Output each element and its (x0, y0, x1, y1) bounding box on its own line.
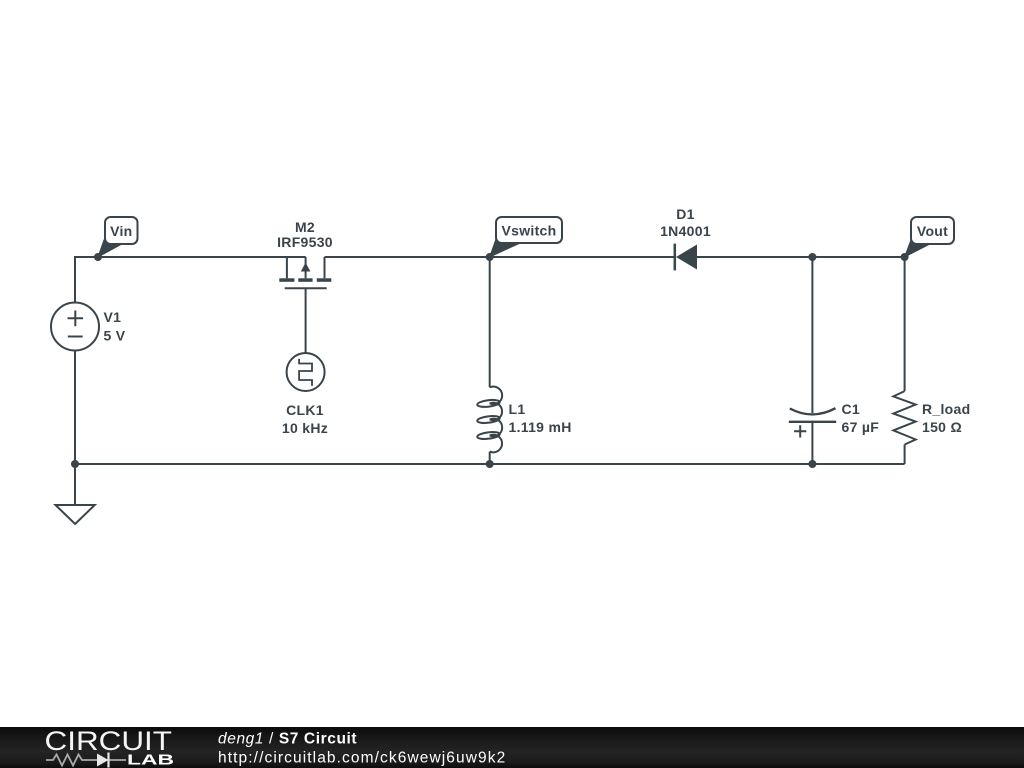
transistor M2 channel bars and body arrow (279, 263, 331, 282)
svg-text:deng1 / S7 Circuit: deng1 / S7 Circuit (218, 731, 357, 748)
capacitor C1 plates (789, 408, 836, 422)
svg-text:5 V: 5 V (104, 328, 126, 344)
resistor R_load (893, 391, 915, 444)
wire R_load bottom (904, 445, 906, 465)
svg-text:CLK1: CLK1 (286, 402, 324, 418)
CircuitLab logo (45, 726, 175, 768)
node Vin flag (98, 217, 138, 257)
wire top rail from M2 drain to D1 cathode (325, 256, 675, 258)
svg-text:1.119 mH: 1.119 mH (509, 419, 572, 435)
wire Vswitch node down to L1 top (489, 257, 491, 387)
wire V1 bottom down through ground node (74, 351, 76, 506)
junction L1 bottom (486, 460, 494, 468)
svg-text:L1: L1 (509, 401, 526, 417)
svg-text:Vout: Vout (917, 223, 948, 239)
svg-text:CIRCUIT: CIRCUIT (45, 726, 173, 756)
svg-text:D1: D1 (676, 206, 695, 222)
svg-text:Vswitch: Vswitch (501, 223, 556, 239)
svg-text:1N4001: 1N4001 (660, 223, 711, 239)
svg-text:V1: V1 (104, 309, 122, 325)
transistor M2 (PMOS) terminals and gate (285, 257, 327, 353)
svg-text:IRF9530: IRF9530 (277, 234, 333, 250)
svg-text:Vin: Vin (110, 223, 132, 239)
junction C1 bottom (808, 460, 816, 468)
svg-text:10 kHz: 10 kHz (282, 420, 328, 436)
svg-text:C1: C1 (842, 401, 861, 417)
wire C1 bottom (811, 422, 813, 464)
node Vout flag (905, 217, 954, 257)
svg-text:LAB: LAB (127, 753, 174, 768)
svg-text:R_load: R_load (922, 401, 970, 417)
wire Vin corner: V1 top up to top rail left segment (75, 257, 306, 303)
capacitor C1 polarity plus (794, 425, 806, 437)
svg-text:http://circuitlab.com/ck6wewj6: http://circuitlab.com/ck6wewj6uw9k2 (218, 750, 506, 767)
svg-text:150 Ω: 150 Ω (922, 419, 962, 435)
junction Vin node (94, 253, 102, 261)
diode D1 cathode bar (674, 244, 677, 271)
diode D1 triangle (676, 245, 697, 270)
junction C1 top (808, 253, 816, 261)
wire bottom rail (75, 463, 905, 465)
wire C1 top (811, 257, 813, 413)
voltage source V1 (51, 303, 99, 351)
junction ground node (71, 460, 79, 468)
clock source CLK1 (287, 353, 325, 391)
node Vswitch flag (490, 217, 562, 257)
svg-text:M2: M2 (295, 219, 315, 235)
inductor L1 (477, 387, 502, 453)
junction Vswitch node (486, 253, 494, 261)
wire top rail from D1 anode to Vout corner down to R_load (697, 257, 905, 391)
ground (56, 505, 95, 524)
wire L1 bottom to bottom rail (489, 452, 491, 464)
junction Vout node (901, 253, 909, 261)
svg-text:67 µF: 67 µF (842, 419, 880, 435)
